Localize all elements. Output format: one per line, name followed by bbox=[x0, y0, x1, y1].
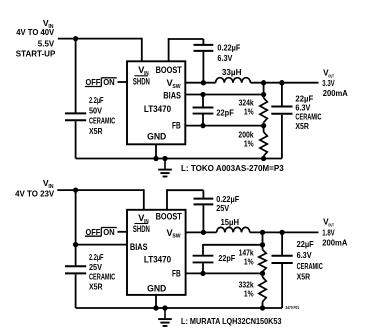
resistor R3 value label (circuit 2) bbox=[239, 249, 255, 267]
op-amp U1 LT3470 box (circuit 1) bbox=[127, 61, 185, 144]
svg-text:25V: 25V bbox=[89, 263, 103, 272]
wire VIN down to IC pin (circuit 2) bbox=[143, 189, 145, 210]
svg-text:332k: 332k bbox=[239, 281, 254, 290]
inductor L1 33uH (circuit 1) bbox=[216, 78, 251, 83]
switch waveform OFF/ON (circuit 1) bbox=[85, 78, 117, 87]
wire boost cap bottom lead (circuit 1) bbox=[202, 52, 204, 83]
resistor R1 324k (circuit 1) bbox=[260, 98, 267, 123]
junction VIN node (circuit 2) bbox=[73, 187, 78, 192]
svg-text:SHDN: SHDN bbox=[133, 77, 150, 87]
wire VIN horizontal (circuit 1) bbox=[58, 38, 142, 40]
svg-text:324k: 324k bbox=[239, 99, 254, 108]
wire output cap bottom lead (circuit 1) bbox=[281, 115, 283, 159]
svg-text:BIAS: BIAS bbox=[163, 90, 181, 100]
svg-text:33µH: 33µH bbox=[222, 68, 242, 77]
svg-text:SHDN: SHDN bbox=[133, 224, 150, 234]
junction divider bottom (circuit 2) bbox=[260, 305, 265, 310]
svg-text:3.3V: 3.3V bbox=[322, 79, 335, 88]
wire GND pin lead (circuit 2) bbox=[155, 295, 157, 308]
junction VIN node (circuit 1) bbox=[73, 36, 78, 41]
junction GND pin (circuit 1) bbox=[153, 156, 158, 161]
wire boost cap bottom lead (circuit 2) bbox=[202, 205, 204, 232]
svg-text:6.3V: 6.3V bbox=[217, 54, 233, 63]
resistor R2 200k (circuit 1) bbox=[260, 132, 267, 156]
junction ground symbol (circuit 2) bbox=[162, 305, 167, 310]
node VIN (circuit 1) label bbox=[16, 18, 56, 59]
pin VSW label U1 bbox=[167, 78, 181, 90]
wire divider bottom lead (circuit 1) bbox=[263, 156, 265, 159]
pin VIN label U2 bbox=[138, 213, 149, 225]
svg-text:FB: FB bbox=[172, 121, 181, 131]
junction 22pF link/divider (circuit 2) bbox=[260, 242, 265, 247]
wire inductor to VOUT (circuit 1) bbox=[250, 82, 318, 84]
pin VIN label U1 bbox=[138, 65, 149, 77]
svg-text:CERAMIC: CERAMIC bbox=[297, 262, 323, 271]
junction output cap top (circuit 2) bbox=[279, 230, 284, 235]
pin SHDN label U2 bbox=[133, 224, 150, 235]
wire input cap top lead (circuit 1) bbox=[75, 39, 77, 113]
wire output cap top lead (circuit 1) bbox=[281, 83, 283, 106]
wire 22pF top lead (circuit 2) bbox=[202, 244, 204, 255]
wire divider top lead (circuit 1) bbox=[263, 83, 265, 98]
junction 22pF/FB (circuit 1) bbox=[200, 123, 205, 128]
wire output cap top lead (circuit 2) bbox=[281, 232, 283, 255]
capacitor C_IN 2.2uF 50V (circuit 1) bbox=[65, 113, 86, 120]
wire divider bottom lead (circuit 2) bbox=[262, 302, 264, 308]
svg-text:5.5V: 5.5V bbox=[38, 39, 55, 48]
wire VSW to inductor (circuit 1) bbox=[185, 82, 215, 84]
svg-text:BIAS: BIAS bbox=[130, 242, 148, 252]
svg-text:147k: 147k bbox=[239, 249, 254, 258]
junction FB/divider (circuit 2) bbox=[260, 271, 265, 276]
svg-text:ON: ON bbox=[103, 78, 115, 87]
svg-text:CERAMIC: CERAMIC bbox=[89, 273, 115, 282]
svg-text:2.2µF: 2.2µF bbox=[89, 253, 104, 262]
junction divider top (circuit 2) bbox=[260, 230, 265, 235]
svg-text:25V: 25V bbox=[216, 204, 230, 213]
svg-text:4V TO 40V: 4V TO 40V bbox=[16, 28, 55, 37]
capacitor C_BOOST 0.22uF (circuit 1) bbox=[194, 45, 214, 51]
wire 22pF bottom lead (circuit 1) bbox=[202, 115, 204, 126]
resistor R4 value label (circuit 2) bbox=[239, 281, 255, 299]
svg-text:LT3470: LT3470 bbox=[144, 255, 171, 265]
wire VIN horizontal (circuit 2) bbox=[57, 189, 144, 191]
wire 22pF top lead (circuit 1) bbox=[202, 95, 204, 107]
svg-text:OUT: OUT bbox=[328, 73, 334, 78]
svg-text:1.8V: 1.8V bbox=[322, 229, 335, 238]
svg-text:L: MURATA LQH32CN150K53: L: MURATA LQH32CN150K53 bbox=[181, 317, 282, 326]
svg-text:LT3470: LT3470 bbox=[144, 104, 171, 114]
wire input cap bottom lead (circuit 1) bbox=[75, 121, 77, 158]
wire divider top lead (circuit 2) bbox=[262, 232, 264, 249]
wire VIN vertical to BIAS (circuit 2) bbox=[75, 190, 77, 265]
svg-text:GND: GND bbox=[147, 283, 167, 293]
svg-text:CERAMIC: CERAMIC bbox=[89, 117, 115, 126]
svg-text:CERAMIC: CERAMIC bbox=[295, 113, 321, 122]
inductor L2 15uH (circuit 2) bbox=[217, 227, 250, 232]
svg-text:1%: 1% bbox=[244, 290, 254, 299]
svg-text:1%: 1% bbox=[244, 257, 254, 266]
svg-text:OUT: OUT bbox=[328, 223, 334, 228]
capacitor C_OUT 22uF (circuit 2) bbox=[272, 256, 293, 263]
svg-text:X5R: X5R bbox=[89, 127, 103, 136]
wire BIAS to divider (circuit 1) bbox=[185, 94, 263, 96]
capacitor C_FF 22pF (circuit 1) bbox=[193, 108, 214, 114]
node VIN (circuit 2) label bbox=[15, 178, 55, 199]
svg-text:X5R: X5R bbox=[89, 282, 103, 291]
wire 22pF bottom lead (circuit 2) bbox=[202, 263, 204, 273]
svg-text:6.3V: 6.3V bbox=[295, 104, 311, 113]
svg-text:4V TO 23V: 4V TO 23V bbox=[15, 190, 55, 199]
wire ground rail (circuit 2) bbox=[76, 307, 283, 309]
wire boost cap top lead (circuit 1) bbox=[202, 39, 204, 44]
junction divider bottom (circuit 1) bbox=[261, 156, 266, 161]
junction 22pF/FB (circuit 2) bbox=[200, 271, 205, 276]
capacitor C_BOOST value label (circuit 1) bbox=[217, 44, 240, 63]
node VOUT label (circuit 1) bbox=[322, 68, 348, 98]
svg-text:BOOST: BOOST bbox=[156, 211, 183, 221]
svg-text:15µH: 15µH bbox=[221, 218, 240, 227]
wire FB to divider (circuit 2) bbox=[186, 272, 263, 274]
svg-text:2.2µF: 2.2µF bbox=[89, 96, 104, 105]
ground (circuit 2) bbox=[158, 308, 172, 326]
svg-text:SW: SW bbox=[172, 234, 180, 240]
svg-text:X5R: X5R bbox=[297, 273, 311, 282]
svg-text:50V: 50V bbox=[89, 106, 103, 115]
ground (circuit 1) bbox=[158, 159, 172, 177]
resistor R2 value label (circuit 1) bbox=[238, 131, 254, 149]
svg-text:SW: SW bbox=[172, 84, 180, 90]
wire boost cap top lead (circuit 2) bbox=[202, 190, 204, 198]
capacitor C_IN value label (circuit 2) bbox=[89, 253, 115, 292]
wire VIN down to IC pin (circuit 1) bbox=[141, 38, 143, 62]
wire FB to divider (circuit 1) bbox=[185, 125, 263, 127]
wire 22pF top link (circuit 2) bbox=[203, 244, 263, 246]
wire BOOST up (circuit 1) bbox=[168, 38, 170, 61]
capacitor C_OUT value label (circuit 1) bbox=[295, 94, 321, 131]
svg-text:1%: 1% bbox=[244, 107, 254, 116]
svg-text:X5R: X5R bbox=[295, 122, 309, 131]
svg-text:22pF: 22pF bbox=[216, 108, 233, 117]
op-amp U2 LT3470 box (circuit 2) bbox=[127, 210, 186, 295]
capacitor C_IN 2.2uF 25V (circuit 2) bbox=[65, 266, 86, 273]
pin SHDN label U1 bbox=[133, 76, 150, 87]
junction BIAS/22pF (circuit 1) bbox=[200, 92, 205, 97]
wire output cap bottom lead (circuit 2) bbox=[281, 264, 283, 308]
junction boost/SW node (circuit 2) bbox=[201, 230, 206, 235]
node VOUT label (circuit 2) bbox=[322, 218, 347, 248]
capacitor C_BOOST value label (circuit 2) bbox=[216, 195, 239, 213]
svg-text:200k: 200k bbox=[238, 131, 254, 140]
wire ground rail (circuit 1) bbox=[76, 158, 282, 160]
wire input cap bottom lead (circuit 2) bbox=[75, 274, 77, 308]
svg-text:ON: ON bbox=[103, 228, 115, 237]
junction BIAS tap (circuit 2) bbox=[73, 242, 78, 247]
resistor R1 value label (circuit 1) bbox=[239, 99, 255, 117]
resistor R4 332k (circuit 2) bbox=[259, 277, 266, 302]
svg-text:BOOST: BOOST bbox=[156, 65, 183, 75]
wire divider middle (circuit 2) bbox=[262, 272, 264, 277]
wire inductor to VOUT (circuit 2) bbox=[250, 231, 319, 233]
junction FB/divider (circuit 1) bbox=[261, 123, 266, 128]
svg-text:22µF: 22µF bbox=[295, 94, 313, 103]
capacitor C_IN value label (circuit 1) bbox=[89, 96, 115, 136]
wire SHDN input (circuit 1) bbox=[118, 81, 128, 83]
switch waveform OFF/ON (circuit 2) bbox=[85, 228, 117, 237]
junction BIAS/divider (circuit 1) bbox=[261, 92, 266, 97]
svg-text:200mA: 200mA bbox=[322, 239, 347, 248]
junction boost/SW node (circuit 1) bbox=[201, 80, 206, 85]
svg-text:GND: GND bbox=[147, 132, 167, 142]
wire GND pin lead (circuit 1) bbox=[155, 144, 157, 158]
svg-text:22pF: 22pF bbox=[218, 254, 235, 263]
wire divider middle (circuit 1) bbox=[263, 122, 265, 132]
svg-text:3470 F01: 3470 F01 bbox=[286, 305, 300, 310]
svg-text:6.3V: 6.3V bbox=[297, 251, 313, 260]
wire BIAS to IC (circuit 2) bbox=[76, 244, 127, 246]
svg-text:0.22µF: 0.22µF bbox=[216, 195, 239, 204]
junction ground symbol (circuit 1) bbox=[162, 156, 167, 161]
svg-text:22µF: 22µF bbox=[297, 240, 314, 249]
wire BOOST up (circuit 2) bbox=[166, 189, 168, 209]
svg-text:START-UP: START-UP bbox=[16, 50, 56, 59]
resistor R3 147k (circuit 2) bbox=[259, 250, 266, 272]
svg-text:FB: FB bbox=[172, 268, 181, 278]
pin VSW label U2 bbox=[167, 228, 181, 240]
svg-text:OFF: OFF bbox=[86, 228, 101, 237]
svg-text:200mA: 200mA bbox=[323, 89, 348, 98]
capacitor C_FF 22pF (circuit 2) bbox=[193, 256, 214, 263]
svg-text:0.22µF: 0.22µF bbox=[217, 44, 240, 53]
junction output cap top (circuit 1) bbox=[279, 80, 284, 85]
wire SHDN input (circuit 2) bbox=[118, 231, 128, 233]
capacitor C_OUT 22uF (circuit 1) bbox=[271, 107, 292, 114]
junction GND pin (circuit 2) bbox=[153, 305, 158, 310]
svg-text:1%: 1% bbox=[244, 140, 254, 149]
capacitor C_OUT value label (circuit 2) bbox=[297, 240, 323, 282]
svg-text:L: TOKO A003AS-270M=P3: L: TOKO A003AS-270M=P3 bbox=[181, 164, 284, 173]
capacitor C_BOOST 0.22uF (circuit 2) bbox=[194, 199, 214, 205]
junction divider top (circuit 1) bbox=[261, 80, 266, 85]
wire VSW to inductor (circuit 2) bbox=[186, 231, 217, 233]
